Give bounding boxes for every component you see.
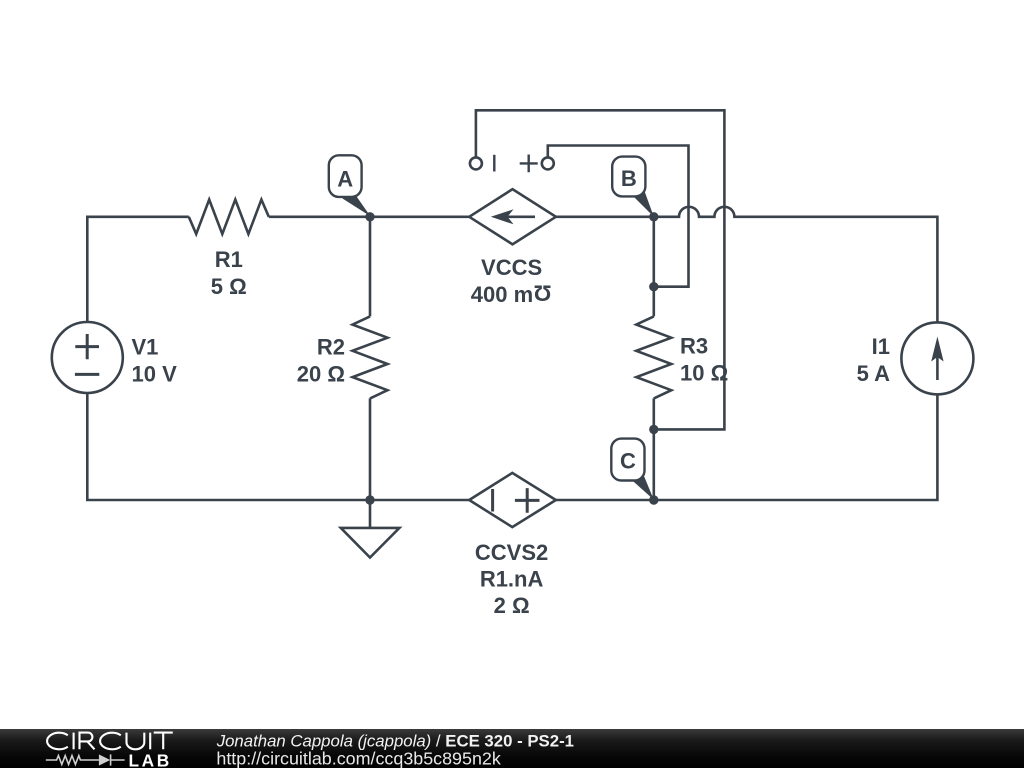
svg-text:10 Ω: 10 Ω <box>680 361 728 386</box>
svg-text:VCCS: VCCS <box>481 255 542 280</box>
svg-text:5 A: 5 A <box>857 361 891 386</box>
svg-text:A: A <box>337 167 353 192</box>
svg-text:LAB: LAB <box>129 751 172 768</box>
resistor R1 <box>189 200 269 234</box>
wire R2 bottom to ground node <box>369 398 372 500</box>
voltage source V1 <box>52 322 123 393</box>
svg-text:10 V: 10 V <box>132 362 178 387</box>
footer bar <box>0 729 1024 768</box>
svg-text:5 Ω: 5 Ω <box>211 274 247 299</box>
junction R3 bottom tap dot <box>649 425 658 434</box>
VCCS sense terminal plus <box>520 155 554 173</box>
VCCS sense terminal minus <box>470 155 494 172</box>
dependent source VCCS diamond <box>469 189 556 244</box>
svg-text:B: B <box>621 166 637 191</box>
wire VCCS right tip to node B <box>556 216 654 219</box>
wire R1 to VCCS through node A <box>269 216 469 219</box>
ground junction dot <box>365 495 374 504</box>
wire node A down to R2 <box>369 217 372 317</box>
node C label <box>611 439 654 500</box>
node A label <box>329 155 371 216</box>
svg-text:http://circuitlab.com/ccq3b5c8: http://circuitlab.com/ccq3b5c895n2k <box>216 749 500 768</box>
current source I1 <box>901 322 973 394</box>
node C junction dot <box>649 495 658 504</box>
node A junction dot <box>365 212 374 221</box>
svg-text:R3: R3 <box>680 334 708 359</box>
wire VCCS minus terminal loop to R3 bottom node <box>476 110 725 429</box>
svg-text:R1: R1 <box>215 247 243 272</box>
junction R3 top tap dot <box>649 282 658 291</box>
bottom wire V1 to CCVS2 <box>87 393 469 500</box>
svg-text:C: C <box>620 449 636 474</box>
svg-text:I1: I1 <box>872 334 890 359</box>
svg-text:R2: R2 <box>317 335 345 360</box>
node B label <box>612 157 654 217</box>
wire VCCS plus terminal loop to R3 top node <box>548 146 689 287</box>
svg-text:20 Ω: 20 Ω <box>297 362 345 387</box>
wire R3 bottom to node C <box>652 398 655 500</box>
CircuitLab logo CIRCUIT letters <box>47 733 173 750</box>
svg-text:CCVS2: CCVS2 <box>475 540 548 565</box>
svg-text:Ω: Ω <box>534 281 552 306</box>
dependent source CCVS2 diamond <box>469 473 556 527</box>
svg-text:V1: V1 <box>132 335 159 360</box>
resistor R3 <box>636 316 671 398</box>
wire node B to I1 top with two hops <box>654 207 938 323</box>
svg-text:R1.nA: R1.nA <box>480 567 544 592</box>
node B junction dot <box>649 212 658 221</box>
svg-text:400 m: 400 m <box>471 282 533 307</box>
bottom wire CCVS2 to I1 <box>556 394 938 500</box>
wire node B down to R3 <box>652 217 655 317</box>
svg-text:2 Ω: 2 Ω <box>494 593 530 618</box>
logo resistor-diode glyph <box>46 754 125 765</box>
wire left branch: V1 top to R1 <box>87 217 189 322</box>
resistor R2 <box>353 316 388 398</box>
ground symbol <box>341 500 400 558</box>
